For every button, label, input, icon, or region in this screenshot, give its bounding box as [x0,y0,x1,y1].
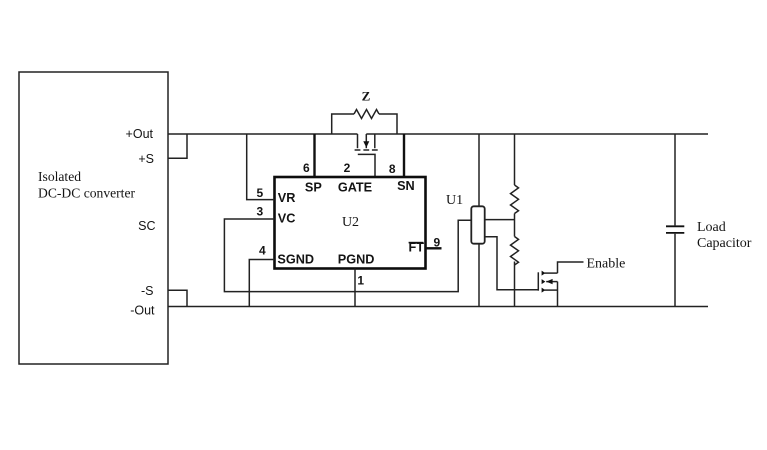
svg-text:+Out: +Out [126,127,154,141]
wire VR pin 5 from top rail [247,134,275,200]
svg-text:4: 4 [259,244,266,258]
wire VC pin 3 to U1 left pin [224,219,471,292]
wire top rail right segment [366,133,708,135]
op-amp / controller U2 box [275,177,426,269]
capacitor C1 plates [666,226,684,233]
enable MOSFET Q2 [538,271,557,293]
resistor R2 zigzag [511,237,519,266]
wire U1 right lower to Q2 gate [485,237,539,290]
svg-text:6: 6 [303,161,310,175]
wire -S step to bottom rail [168,290,187,306]
svg-text:1: 1 [357,274,364,288]
wire PGND pin 1 to bottom rail [354,269,356,307]
svg-text:SN: SN [397,179,415,193]
converter title text [38,169,135,201]
wire load capacitor top [674,134,676,225]
wire divider bottom [514,262,516,307]
svg-text:5: 5 [256,186,263,200]
svg-text:Capacitor: Capacitor [697,236,752,251]
svg-text:U1: U1 [446,193,463,208]
svg-text:VR: VR [278,191,296,205]
wire U1 bottom to bottom rail [478,244,480,307]
svg-text:DC-DC converter: DC-DC converter [38,186,135,201]
svg-text:Enable: Enable [587,257,626,272]
resistor R1 zigzag [511,185,519,213]
pass MOSFET Q1 [355,134,378,177]
svg-text:GATE: GATE [338,180,372,194]
wire load capacitor bottom [674,234,676,307]
wire Z left leg [332,114,354,134]
svg-text:2: 2 [344,161,351,175]
svg-text:3: 3 [256,205,263,219]
svg-text:Load: Load [697,220,726,235]
wire FT pin 9 stub [426,247,442,249]
isolated DC-DC converter box [19,72,168,364]
label Load Capacitor [697,220,752,251]
component U1 body [471,206,484,243]
svg-text:SGND: SGND [277,252,314,266]
wire U1 right upper to divider [485,219,515,221]
U2 pin name FT with overline [408,241,424,255]
svg-text:U2: U2 [342,215,359,230]
svg-text:+S: +S [138,152,154,166]
wire Q2 drain to Enable [558,262,584,273]
wire Q2 source to bottom rail [557,282,559,307]
svg-text:8: 8 [389,162,396,176]
wire divider middle [514,214,516,237]
svg-text:VC: VC [278,212,296,226]
wire divider top [514,134,516,185]
wire SGND pin 4 to bottom rail [249,260,274,307]
wire U1 top to rail [478,134,480,206]
wire bottom rail (-Out) [168,306,708,308]
svg-text:Isolated: Isolated [38,169,81,184]
svg-text:-S: -S [141,284,154,298]
svg-text:Z: Z [362,88,371,103]
svg-text:SP: SP [305,180,322,194]
svg-text:SC: SC [138,219,155,233]
resistor Z zigzag [354,110,379,119]
wire SN pin 8 [403,134,405,177]
svg-text:-Out: -Out [130,304,155,318]
wire top rail left segment (+Out) [168,133,358,135]
wire SP pin 6 [313,134,315,177]
wire +S step to top rail [168,134,187,158]
wire Z right leg [379,114,397,134]
svg-text:PGND: PGND [338,253,375,267]
